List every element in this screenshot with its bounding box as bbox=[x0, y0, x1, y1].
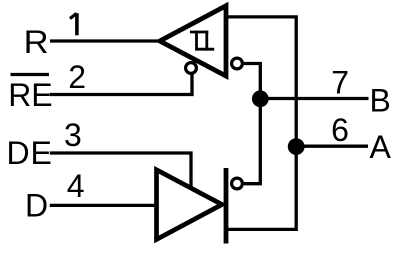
svg-text:B: B bbox=[370, 82, 391, 118]
svg-text:7: 7 bbox=[331, 65, 349, 101]
svg-text:3: 3 bbox=[64, 117, 82, 153]
svg-text:4: 4 bbox=[67, 168, 85, 204]
svg-text:A: A bbox=[370, 129, 392, 165]
svg-text:R: R bbox=[24, 24, 49, 60]
svg-text:2: 2 bbox=[68, 59, 86, 95]
svg-text:D: D bbox=[25, 187, 48, 223]
svg-text:6: 6 bbox=[331, 112, 349, 148]
svg-text:RE: RE bbox=[8, 77, 52, 113]
svg-text:DE: DE bbox=[7, 135, 52, 171]
